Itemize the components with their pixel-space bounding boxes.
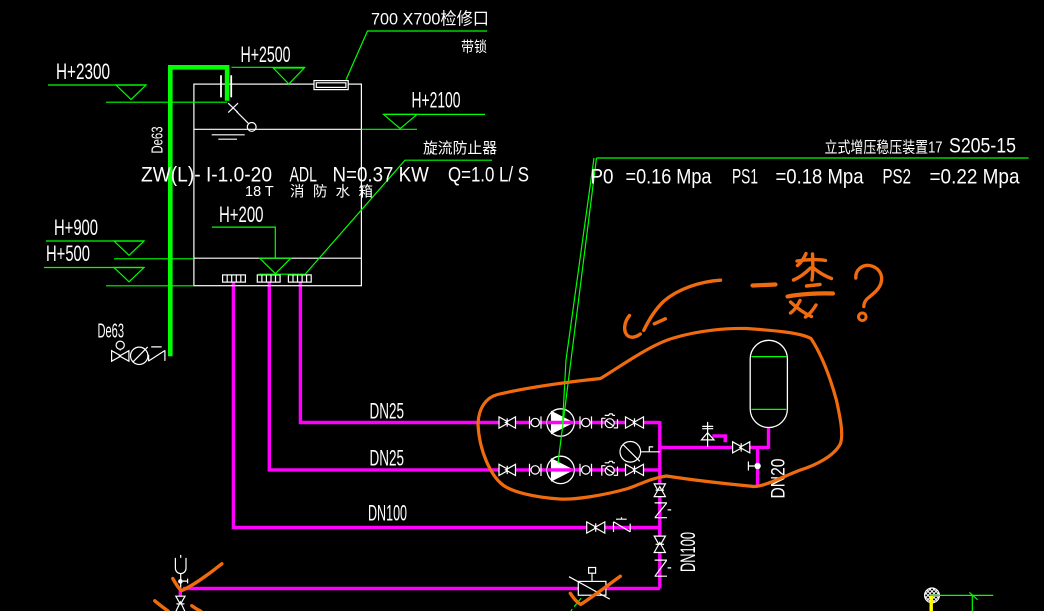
svg-text:ADL: ADL: [290, 164, 318, 187]
svg-text:立式增压稳压装置17: 立式增压稳压装置17: [825, 139, 943, 157]
svg-text:DN100: DN100: [677, 532, 700, 572]
tank outlet connector 1: [223, 275, 246, 282]
pressure vessel: [750, 340, 787, 427]
level marker H+200 leader: [212, 227, 305, 274]
water level squiggle: [212, 135, 245, 139]
wire pipe riser manifold: [658, 421, 661, 589]
svg-text:S205-15: S205-15: [949, 135, 1016, 158]
check valve riser 2: [655, 560, 672, 576]
annotation corner stroke: [155, 601, 169, 611]
svg-text:H+500: H+500: [46, 241, 90, 266]
wire pipe branch to vessel: [658, 446, 768, 449]
valve butterfly DN100 branch: [587, 522, 605, 533]
svg-text:DN25: DN25: [370, 446, 405, 471]
svg-text:700 X700检修口: 700 X700检修口: [371, 10, 489, 29]
svg-text:De63: De63: [98, 321, 125, 343]
wire pipe vessel drop: [767, 427, 770, 449]
wire air vent drop: [179, 589, 182, 597]
leader vortex preventer: [305, 160, 492, 274]
float valve flanges: [221, 75, 231, 97]
svg-text:DN25: DN25: [370, 399, 405, 424]
annotation check mark air vent: [173, 564, 222, 591]
svg-text:DN100: DN100: [368, 501, 407, 526]
svg-text:=0.18 Mpa: =0.18 Mpa: [776, 166, 864, 189]
level marker H+900: [46, 241, 194, 259]
handwriting yi stroke: [753, 285, 776, 286]
air vent: [175, 555, 187, 588]
valve butterfly riser 1: [654, 484, 665, 497]
svg-text:=0.16 Mpa: =0.16 Mpa: [626, 166, 712, 189]
svg-text:H+2100: H+2100: [412, 88, 461, 113]
svg-text:H+200: H+200: [219, 202, 264, 227]
wire green dashed drain: [571, 587, 590, 611]
ORANGE: [155, 254, 882, 611]
valve butterfly vessel line: [733, 442, 750, 453]
tank outlet connector 3: [288, 275, 311, 282]
valve butterfly below air vent: [176, 596, 185, 611]
fire water tank outline: [194, 84, 362, 286]
OVERLAY-GREEN: [558, 158, 993, 611]
flexible joint pump2 inlet: [530, 464, 542, 476]
svg-text:=0.22 Mpa: =0.22 Mpa: [930, 166, 1020, 189]
De63 ball valve: [112, 341, 129, 361]
level marker H+2500: [232, 67, 306, 84]
floor drain hatched circle: [914, 585, 950, 605]
level marker H+2300: [48, 85, 227, 102]
annotation arrow barb: [654, 319, 665, 324]
wire green bottom-right: [930, 592, 993, 611]
svg-text:消防水箱: 消防水箱: [290, 184, 373, 201]
pump P2: [547, 456, 574, 483]
inspection hatch: [314, 81, 348, 90]
De63 check valve: [149, 347, 165, 362]
annotation arrow curve: [644, 280, 721, 330]
svg-text:H+900: H+900: [54, 215, 98, 240]
svg-text:H+2300: H+2300: [56, 59, 110, 84]
annotation check mark control valve: [570, 576, 620, 604]
svg-text:N=0.37 KW: N=0.37 KW: [333, 164, 429, 187]
svg-text:P0: P0: [591, 166, 614, 189]
valve butterfly discharge pump2: [626, 464, 644, 475]
check valve pump2: [602, 461, 618, 476]
pressure gauge: [620, 442, 660, 463]
wire pipe DN100 suction: [233, 282, 659, 527]
annotation small stroke: [192, 606, 201, 611]
De63 water meter: [131, 347, 148, 365]
svg-text:H+2500: H+2500: [241, 42, 291, 67]
pump P1: [547, 409, 574, 436]
annotation loop around device: [478, 328, 842, 499]
level marker H+2100: [361, 114, 485, 129]
level marker H+500: [44, 268, 194, 286]
flexible joint pump1 outlet: [580, 416, 592, 428]
pipe De63 thick green: [170, 67, 227, 356]
wire pipe drain DN20: [756, 447, 759, 485]
PIPES-MAGENTA: [180, 282, 768, 596]
check valve riser 1: [655, 503, 672, 518]
wire pipe DN100 bottom run: [183, 587, 660, 590]
safety valve: [701, 422, 714, 447]
tank inner bottom line: [194, 257, 362, 259]
leader to pump 2: [558, 158, 597, 463]
valve butterfly riser 2: [654, 536, 665, 552]
svg-text:PS2: PS2: [883, 166, 912, 189]
float valve cross: [228, 103, 238, 112]
annotation arrow hook: [625, 316, 641, 338]
svg-text:PS1: PS1: [732, 166, 758, 189]
handwriting question mark: [856, 265, 882, 320]
wire safety valve discharge elbow: [712, 436, 725, 442]
svg-text:带锁: 带锁: [461, 39, 487, 56]
wire pipe DN25 lower suction: [269, 282, 660, 470]
valve butterfly discharge pump1: [626, 417, 644, 428]
svg-text:旋流防止器: 旋流防止器: [423, 140, 497, 157]
valve butterfly suction pump1: [499, 417, 516, 428]
svg-text:De63: De63: [150, 126, 167, 153]
flexible joint pump1 inlet: [530, 416, 542, 428]
water surface line: [194, 128, 362, 130]
TANK: [194, 75, 362, 285]
yellow drop pipe: [930, 595, 933, 611]
wire pipe DN25 upper suction: [300, 282, 659, 422]
svg-text:Q=1.0 L/ S: Q=1.0 L/ S: [448, 164, 529, 187]
control valve bottom: [569, 568, 610, 600]
flexible joint pump2 outlet: [580, 464, 592, 476]
underline device label: [597, 157, 1029, 159]
svg-text:18 T: 18 T: [245, 184, 274, 200]
tank outlet connector 2: [257, 275, 280, 282]
leader inspection hatch: [346, 31, 487, 80]
float arm: [237, 112, 249, 124]
float ball: [247, 123, 256, 132]
leader to pump 1: [563, 158, 595, 424]
check valve DN100 branch: [614, 517, 631, 532]
check valve pump1: [602, 414, 618, 429]
valve butterfly suction pump2: [499, 464, 516, 475]
drain tap: [748, 462, 760, 471]
handwriting tao character: [788, 254, 834, 318]
vessel level lines: [751, 357, 786, 410]
